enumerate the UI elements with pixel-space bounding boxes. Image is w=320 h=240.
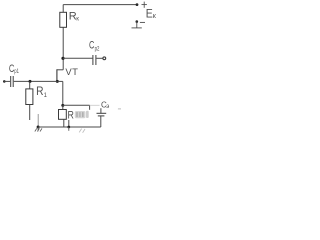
wire drop at Ce branch: [89, 105, 91, 110]
label Ce: [101, 100, 109, 110]
node output terminal circle: [103, 57, 106, 60]
wire Ce bottom lead to rail: [100, 116, 102, 127]
wire faint stub to ground rail: [37, 114, 39, 127]
wire faint continuation toward Ce: [90, 104, 100, 106]
resistor Re: [59, 110, 67, 120]
node base wire junction dot: [29, 80, 32, 83]
capacitor Ce: [97, 113, 107, 116]
label Re subscript smudge: [75, 111, 89, 119]
node input terminal dot: [3, 80, 6, 83]
wire collector node to Cp2: [63, 57, 92, 59]
wire input terminal to Cp1: [4, 80, 10, 82]
wire Cp2 to output terminal: [96, 57, 102, 59]
label Ek: [146, 6, 157, 20]
wire bottom common rail: [38, 126, 101, 128]
resistor Rk: [60, 12, 67, 27]
minus terminal of supply Ek: [132, 20, 146, 28]
wire Re left bottom lead: [63, 119, 65, 127]
label Cp2: [89, 40, 100, 53]
node +Ek terminal junction dot: [136, 3, 139, 6]
svg-text:э: э: [106, 104, 109, 110]
wire emitter node down to Re: [62, 105, 64, 109]
wire collector: Rk bottom down to transistor: [62, 27, 64, 70]
transistor VT base bar: [56, 69, 58, 81]
faint tick right of Ce label: [118, 108, 121, 110]
transistor VT emitter lead jog: [57, 80, 63, 82]
wire Re right bottom lead: [68, 120, 70, 127]
node ground junction dot: [37, 126, 40, 129]
label Cp1: [9, 63, 19, 75]
ground stub below rail junction 2: [68, 127, 70, 131]
wire emitter node toward Ce: [63, 104, 90, 106]
wire Ce top lead: [100, 108, 102, 113]
capacitor Cp2: [93, 55, 96, 65]
wire from top rail to Rk: [62, 5, 64, 13]
wire base: Cp1 to transistor: [14, 80, 57, 82]
capacitor Cp1: [11, 76, 14, 87]
resistor R1: [26, 89, 33, 105]
svg-text:р1: р1: [14, 69, 19, 75]
svg-text:р2: р2: [95, 46, 100, 52]
wire top supply rail: [63, 4, 137, 6]
ground symbol with hatching: [35, 127, 42, 132]
node emitter junction dot: [61, 104, 64, 107]
faint scan marks below rail: [79, 129, 85, 133]
svg-text:VT: VT: [65, 67, 78, 78]
label Rk: [69, 11, 79, 23]
label R1: [36, 84, 48, 99]
wire emitter down: [62, 81, 64, 105]
node base junction dot at bar: [56, 80, 59, 83]
wire base node down to R1: [29, 81, 31, 89]
plus sign of supply Ek: [142, 2, 147, 8]
svg-text:R: R: [68, 110, 74, 122]
transistor VT collector lead jog: [57, 69, 63, 71]
node collector junction dot: [61, 57, 64, 60]
node rail junction dot 2: [67, 126, 70, 129]
wire R1 bottom lead: [29, 105, 31, 121]
svg-text:E: E: [146, 6, 153, 20]
svg-text:к: к: [76, 16, 79, 22]
